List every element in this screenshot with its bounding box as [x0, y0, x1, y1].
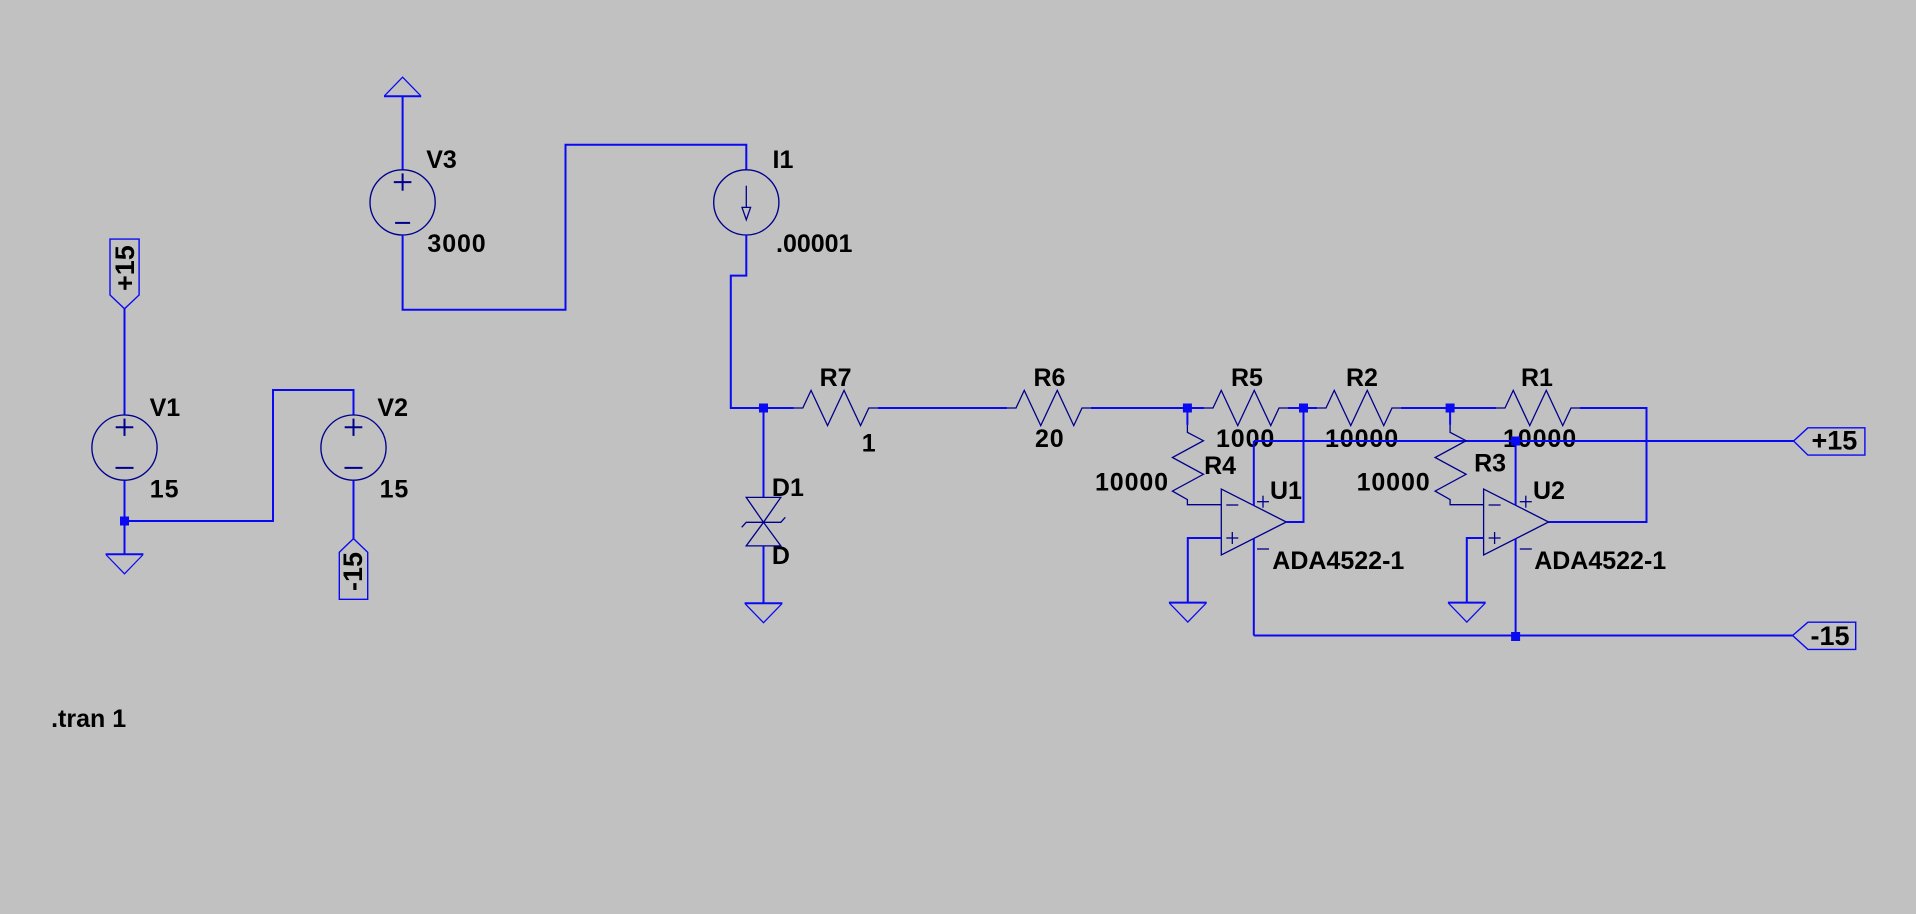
- wire U1 top power pin: [1253, 441, 1255, 506]
- svg-text:10000: 10000: [1357, 469, 1431, 497]
- wire V1 bottom to V2 top: [125, 390, 354, 521]
- current source I1: [714, 170, 779, 235]
- svg-text:D: D: [772, 542, 790, 570]
- node junction R6/R5/R4: [1183, 404, 1192, 413]
- ground (U1): [1169, 602, 1207, 604]
- flag -15 (below V2): [338, 539, 368, 600]
- flag +15 (left, above V1): [110, 239, 140, 309]
- wire I1 bottom to main node: [731, 235, 794, 408]
- voltage source V3: [370, 170, 435, 235]
- svg-text:15: 15: [380, 476, 410, 504]
- svg-text:R2: R2: [1346, 364, 1378, 392]
- svg-text:10000: 10000: [1095, 469, 1169, 497]
- wire V3 bottom to I1 top: [403, 145, 747, 310]
- ground (V1): [106, 553, 144, 555]
- wire R2 to R1: [1401, 407, 1496, 409]
- svg-text:10000: 10000: [1325, 425, 1399, 453]
- svg-text:V3: V3: [426, 146, 457, 174]
- svg-text:ADA4522-1: ADA4522-1: [1272, 547, 1404, 575]
- node junction U2 -supply: [1511, 632, 1520, 641]
- svg-text:R4: R4: [1204, 452, 1236, 480]
- svg-text:D1: D1: [772, 474, 804, 502]
- wire -15 rail: [1254, 635, 1793, 637]
- wire R1 to U2 output (feedback): [1549, 408, 1647, 522]
- svg-text:1: 1: [862, 429, 876, 457]
- svg-text:+15: +15: [1812, 426, 1858, 456]
- resistor R7: [794, 390, 878, 425]
- node junction R5/R2/U1out: [1299, 404, 1308, 413]
- wire +15 rail: [1254, 440, 1794, 442]
- ground (D1): [745, 602, 783, 604]
- wire U1 bottom power pin: [1253, 539, 1255, 636]
- wire U1 output to node: [1286, 408, 1303, 522]
- wire U2 +input to ground: [1467, 538, 1484, 603]
- svg-text:R6: R6: [1034, 364, 1066, 392]
- wire flag +15 to V1 top: [124, 309, 126, 415]
- wire R4 top lead: [1186, 408, 1188, 425]
- diode D1 (bidirectional TVS): [742, 497, 786, 546]
- resistor R5: [1204, 390, 1288, 425]
- op-amp U1: [1221, 489, 1286, 555]
- wire R7 to R6: [878, 407, 1007, 409]
- wire D1 bottom lead: [763, 546, 765, 603]
- wire U2 bottom power pin: [1515, 539, 1517, 636]
- op-amp U2: [1484, 489, 1549, 555]
- flag +15 (right): [1794, 426, 1865, 456]
- svg-text:.00001: .00001: [776, 230, 853, 258]
- wire U2 top power pin: [1515, 441, 1517, 506]
- svg-text:V1: V1: [150, 394, 181, 422]
- resistor R3: [1435, 425, 1484, 505]
- svg-text:-15: -15: [338, 552, 368, 591]
- svg-text:I1: I1: [773, 146, 794, 174]
- wire R3 top lead: [1449, 408, 1451, 425]
- svg-text:R1: R1: [1521, 364, 1553, 392]
- wire D1 top lead: [763, 408, 765, 497]
- voltage source V1: [92, 415, 157, 480]
- svg-text:R7: R7: [820, 364, 852, 392]
- svg-text:ADA4522-1: ADA4522-1: [1534, 547, 1666, 575]
- resistor R1: [1496, 390, 1580, 425]
- svg-text:V2: V2: [377, 394, 408, 422]
- node junction at D1 top: [759, 404, 768, 413]
- wire V1 bottom to ground: [124, 480, 126, 554]
- svg-text:R5: R5: [1231, 364, 1263, 392]
- svg-text:20: 20: [1035, 425, 1065, 453]
- svg-text:U2: U2: [1533, 477, 1565, 505]
- voltage source V2: [321, 415, 386, 480]
- node junction R2/R1/R3: [1446, 404, 1455, 413]
- svg-text:R3: R3: [1474, 450, 1506, 478]
- flag -15 (right): [1793, 621, 1856, 651]
- svg-text:15: 15: [150, 476, 180, 504]
- arrow symbol above V3: [384, 95, 421, 97]
- resistor R4: [1172, 425, 1221, 505]
- wire R6 to R5: [1091, 407, 1204, 409]
- resistor R6: [1007, 390, 1091, 425]
- svg-text:.tran 1: .tran 1: [51, 705, 126, 733]
- resistor R2: [1317, 390, 1401, 425]
- ground (U2): [1448, 602, 1486, 604]
- wire U1 +input to ground: [1188, 538, 1222, 603]
- svg-text:+15: +15: [110, 245, 140, 291]
- node junction U2 +supply: [1511, 437, 1520, 446]
- wire arrow to V3 top: [402, 96, 404, 170]
- svg-text:-15: -15: [1811, 621, 1850, 651]
- wire R5 to R2: [1288, 407, 1317, 409]
- svg-text:U1: U1: [1270, 477, 1302, 505]
- node junction at V1 bottom: [120, 517, 129, 526]
- svg-text:1000: 1000: [1216, 425, 1275, 453]
- wire V2 bottom to flag: [353, 480, 355, 538]
- svg-text:3000: 3000: [427, 230, 486, 258]
